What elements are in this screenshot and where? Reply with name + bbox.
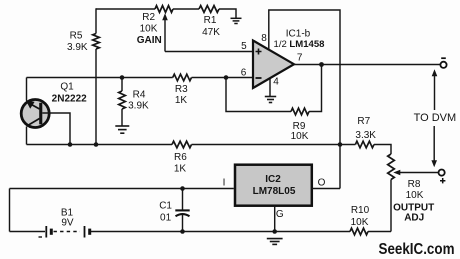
- wire left edge vertical: [9, 189, 11, 232]
- svg-text:R2: R2: [142, 12, 155, 23]
- resistor R6: [172, 141, 192, 148]
- svg-text:R6: R6: [174, 152, 187, 163]
- feedback loop wire and resistor R9: [226, 78, 291, 112]
- ground (op-amp pin 4): [265, 97, 276, 103]
- terminal plus (to DVM): [439, 170, 445, 176]
- node R4 top junction: [120, 75, 125, 80]
- svg-text:10K: 10K: [291, 131, 309, 142]
- svg-text:TO DVM: TO DVM: [414, 112, 457, 124]
- wire R5 to emitter rail: [95, 49, 97, 145]
- svg-text:01: 01: [160, 213, 172, 224]
- terminal minus (to DVM): [440, 62, 446, 68]
- wire R9 to output: [309, 65, 322, 112]
- op-amp U1 IC1-b triangle: [253, 41, 294, 89]
- wire output pin to supply vertical: [312, 188, 340, 190]
- wire Q1 collector up to bus: [26, 78, 28, 101]
- svg-text:8: 8: [261, 33, 267, 44]
- resistor R7: [355, 141, 374, 148]
- node C1 bottom junction: [180, 229, 185, 234]
- wire base bus (pin 6 row): [27, 77, 173, 79]
- wiper arrow of R2: [164, 20, 166, 52]
- svg-text:G: G: [276, 209, 284, 220]
- wire R2 to R1: [173, 8, 199, 10]
- wire bottom rail left: [10, 231, 46, 233]
- svg-text:R7: R7: [357, 116, 370, 127]
- wire op-amp output: [294, 64, 440, 66]
- wire top rail down-left corner: [95, 8, 97, 33]
- wire R1 to ground corner: [219, 9, 236, 18]
- svg-text:10K: 10K: [140, 24, 158, 35]
- svg-text:3.9K: 3.9K: [67, 42, 88, 53]
- svg-text:R4: R4: [133, 90, 146, 101]
- resistor R1: [199, 6, 219, 13]
- svg-text:47K: 47K: [202, 27, 220, 38]
- svg-text:ADJ: ADJ: [404, 212, 424, 223]
- svg-text:2N2222: 2N2222: [52, 94, 87, 105]
- wire emitter rail: [27, 144, 173, 146]
- svg-text:R1: R1: [204, 15, 217, 26]
- ground (below G): [267, 239, 283, 245]
- wire top rail left segment: [96, 8, 155, 10]
- wire pin 4 to ground: [269, 79, 271, 96]
- svg-text:GAIN: GAIN: [137, 35, 162, 46]
- svg-text:IC1-b: IC1-b: [286, 28, 311, 39]
- resistor R4: [121, 78, 123, 92]
- wire input row: [10, 188, 234, 190]
- node R5 rail junction: [94, 142, 99, 147]
- svg-text:9V: 9V: [61, 218, 74, 229]
- svg-text:1K: 1K: [175, 95, 188, 106]
- op-amp plus input symbol: [256, 49, 262, 55]
- capacitor C1: [175, 189, 189, 232]
- op-amp minus input symbol: [256, 77, 262, 79]
- svg-text:O: O: [318, 177, 326, 188]
- node output junction: [319, 62, 324, 67]
- svg-text:LM78L05: LM78L05: [253, 186, 296, 197]
- svg-text:10K: 10K: [351, 217, 369, 228]
- wire bottom rail middle: [91, 231, 350, 233]
- ground (below R4): [115, 126, 129, 133]
- node C1 top junction: [180, 186, 185, 191]
- svg-text:SeekIC.com: SeekIC.com: [379, 241, 455, 258]
- svg-text:IC2: IC2: [265, 174, 281, 185]
- arrow down to plus terminal: [433, 126, 435, 161]
- svg-text:5: 5: [241, 41, 247, 52]
- wiper arrow of R8: [400, 172, 439, 174]
- svg-text:Q1: Q1: [60, 82, 74, 93]
- svg-text:1K: 1K: [174, 164, 187, 175]
- svg-text:I: I: [223, 178, 226, 189]
- wire R7 to R8 top: [374, 145, 391, 155]
- svg-text:R3: R3: [175, 84, 188, 95]
- svg-text:3.3K: 3.3K: [355, 130, 376, 141]
- resistor R5: [93, 34, 100, 50]
- svg-text:7: 7: [297, 53, 303, 64]
- wire R10 to R8 bottom: [368, 231, 391, 233]
- wire R3 to op-amp pin 6: [192, 77, 254, 79]
- svg-text:4: 4: [273, 76, 279, 87]
- svg-text:R5: R5: [70, 31, 83, 42]
- svg-text:1/2 LM1458: 1/2 LM1458: [274, 39, 325, 50]
- battery B1: [46, 226, 89, 238]
- svg-text:C1: C1: [159, 201, 172, 212]
- potentiometer R8: [388, 154, 395, 180]
- potentiometer R2: [155, 6, 173, 13]
- arrow up to minus terminal: [434, 76, 436, 111]
- wire R6 to R7: [192, 144, 356, 146]
- resistor R9: [291, 108, 309, 115]
- wire wiper to op-amp pin 5: [165, 51, 253, 53]
- svg-text:3.9K: 3.9K: [128, 100, 149, 111]
- svg-text:10K: 10K: [406, 190, 424, 201]
- battery minus mark: [39, 236, 43, 238]
- ground (top right of R1): [231, 18, 242, 23]
- node base junction: [68, 142, 73, 147]
- resistor R10: [350, 228, 368, 235]
- plus polarity mark: [440, 178, 445, 183]
- wire G pin down: [274, 206, 276, 232]
- transistor Q1: [21, 100, 49, 128]
- svg-text:R10: R10: [351, 205, 370, 216]
- wire pin 8 supply loop: [269, 10, 340, 189]
- regulator IC2 box: [235, 165, 312, 206]
- svg-text:R8: R8: [408, 179, 421, 190]
- minus polarity mark: [441, 57, 446, 59]
- svg-text:6: 6: [241, 68, 247, 79]
- wire Q1 emitter down to rail: [26, 127, 28, 145]
- resistor R3: [173, 74, 192, 81]
- wire Q1 base to rail: [42, 113, 70, 145]
- node G junction: [272, 229, 277, 234]
- node supply rail junction: [338, 142, 343, 147]
